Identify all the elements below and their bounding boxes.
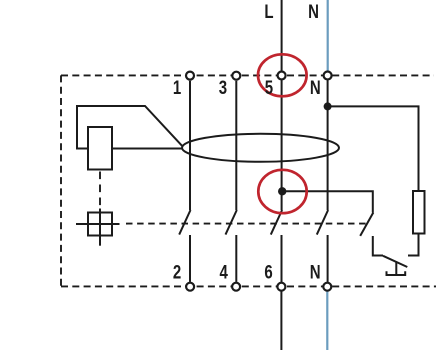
svg-text:3: 3: [219, 78, 227, 99]
terminal 5: [278, 72, 286, 80]
wire: pole 5-6 inner segment: [281, 80, 283, 210]
wire: N load conductor (bottom, blue): [326, 291, 328, 350]
switch contact pole 1-2 blade: [179, 210, 190, 235]
trip coil to mechanism dashed link: [99, 172, 101, 209]
switch contact pole N blade: [317, 210, 328, 235]
wire: L junction to test contact: [282, 191, 373, 212]
switch contact pole 5-6 blade: [271, 210, 282, 235]
test resistor R: [413, 191, 425, 234]
trip coil K1: [88, 127, 112, 170]
svg-text:N: N: [308, 2, 319, 23]
current transformer toroid W1: [182, 134, 339, 162]
wire: pole N inner segment: [327, 80, 329, 210]
wire: pole 1-2 lower segment: [189, 235, 191, 282]
terminal N bottom: [323, 283, 331, 291]
terminal N top: [324, 72, 332, 80]
terminal 4: [232, 283, 240, 291]
wire: pole 5-6 lower segment: [281, 235, 283, 282]
wire: resistor to test button right contact: [408, 234, 419, 256]
wire: pole 3-4 upper segment: [235, 81, 237, 210]
wire: L supply conductor (top, pole 5): [281, 0, 283, 71]
node: L junction to test circuit: [278, 187, 286, 195]
wire: N supply conductor (top, blue): [327, 0, 329, 71]
switch contact test-circuit blade: [360, 213, 373, 236]
terminal 2: [186, 283, 194, 291]
test button SB blade: [383, 256, 407, 267]
wire: sensing winding upper lead: [77, 106, 183, 149]
wire: test contact to button left contact: [373, 236, 383, 256]
enclosure dashed border: [61, 75, 436, 286]
highlight circle around terminal 5: [258, 54, 307, 96]
wire: pole 3-4 lower segment: [235, 235, 237, 282]
wire: sensing winding lower lead: [112, 148, 183, 150]
node: N junction to test circuit: [324, 102, 332, 110]
terminal 1: [186, 72, 194, 80]
svg-text:5: 5: [265, 78, 274, 99]
svg-text:L: L: [264, 2, 273, 23]
svg-text:N: N: [310, 78, 321, 99]
svg-text:6: 6: [264, 262, 272, 283]
test button actuator: [387, 262, 406, 275]
mechanical linkage dashed bar: [126, 223, 368, 225]
terminal 3: [232, 72, 240, 80]
switch contact pole 3-4 blade: [226, 210, 237, 235]
terminal 6: [277, 283, 285, 291]
wire: pole N lower segment: [327, 235, 329, 282]
wire: N junction to test resistor: [328, 106, 419, 191]
svg-text:2: 2: [173, 262, 181, 283]
svg-text:N: N: [310, 262, 321, 283]
svg-text:1: 1: [173, 78, 182, 99]
wire: L load conductor (bottom, pole 6): [280, 291, 282, 350]
trip mechanism box: [76, 209, 120, 246]
highlight circle around L test junction: [258, 170, 306, 213]
wire: pole 1-2 upper segment: [189, 81, 191, 210]
svg-text:4: 4: [220, 262, 229, 283]
